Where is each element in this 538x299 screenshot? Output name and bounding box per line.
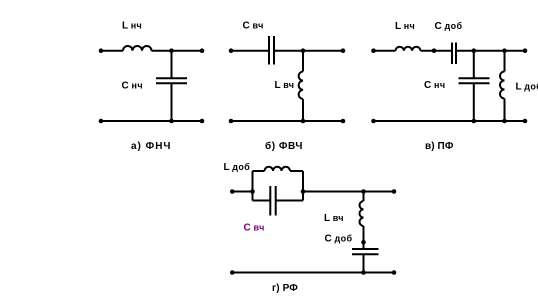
node: circuit d tank left bbox=[250, 189, 255, 194]
inductor L5 (L доб) circuit d tank coil bbox=[265, 167, 291, 171]
node: circuit a output top bbox=[200, 48, 205, 53]
node: circuit c junction 2 bottom bbox=[502, 119, 507, 124]
wire: circuit d bottom bbox=[232, 272, 394, 274]
capacitor C4 (C нч) circuit c shunt plates bbox=[459, 78, 490, 83]
node: circuit a junction top bbox=[169, 48, 174, 53]
inductor L2 (L вч) circuit b vertical coil bbox=[299, 72, 303, 100]
wire: circuit a capacitor upper lead bbox=[171, 51, 173, 78]
wire: circuit c shunt inductor lower lead bbox=[504, 99, 506, 122]
wire: circuit d tank top branch left bbox=[253, 170, 265, 172]
inductor L1 (L нч) circuit a bbox=[123, 46, 152, 51]
svg-text:а) ФНЧ: а) ФНЧ bbox=[131, 141, 171, 152]
node: circuit c junction 1 bottom bbox=[472, 119, 477, 124]
svg-text:C нч: C нч bbox=[122, 81, 143, 92]
wire: circuit c shunt capacitor lower lead bbox=[473, 83, 475, 121]
wire: circuit d tank left vertical bbox=[252, 171, 254, 201]
wire: circuit b top-right segment bbox=[274, 50, 343, 52]
svg-text:L нч: L нч bbox=[395, 21, 415, 32]
wire: circuit b inductor lower lead bbox=[302, 99, 304, 121]
wire: circuit b top-left segment bbox=[231, 50, 269, 52]
inductor L3 (L нч) circuit c bbox=[396, 47, 421, 51]
svg-text:г) РФ: г) РФ bbox=[272, 283, 298, 294]
wire: circuit a top-right segment bbox=[152, 50, 203, 52]
wire: circuit d tank bottom branch right bbox=[276, 200, 303, 202]
svg-text:C нч: C нч bbox=[424, 80, 445, 91]
wire: circuit c shunt inductor upper lead bbox=[504, 51, 506, 72]
node: circuit a output bottom bbox=[200, 119, 205, 124]
wire: circuit b bottom bbox=[231, 120, 343, 122]
svg-text:L доб: L доб bbox=[516, 82, 538, 93]
wire: circuit d between inductor and capacitor bbox=[363, 226, 365, 249]
inductor L6 (L вч) circuit d vertical coil bbox=[360, 201, 364, 226]
node: circuit d output top bbox=[392, 189, 397, 194]
node: circuit c junction 2 top bbox=[502, 48, 507, 53]
node: circuit a junction bottom bbox=[169, 119, 174, 124]
wire: circuit d top-right segment bbox=[303, 191, 394, 193]
svg-text:L вч: L вч bbox=[324, 213, 344, 224]
wire: circuit d tank top branch right bbox=[290, 170, 303, 172]
capacitor C3 (C доб) circuit c series plates bbox=[452, 43, 456, 65]
wire: circuit a bottom bbox=[101, 120, 202, 122]
node: circuit d tank right bbox=[301, 189, 306, 194]
node: circuit c junction 1 top bbox=[472, 48, 477, 53]
node: circuit b output top bbox=[341, 48, 346, 53]
svg-text:C доб: C доб bbox=[435, 21, 463, 32]
node: circuit b output bottom bbox=[341, 119, 346, 124]
node: circuit d input bottom bbox=[230, 270, 235, 275]
wire: circuit c bottom bbox=[374, 120, 526, 122]
node: circuit b junction top bbox=[301, 48, 306, 53]
node: circuit d junction bottom bbox=[361, 270, 366, 275]
capacitor C6 (C доб) circuit d shunt plates bbox=[352, 249, 379, 254]
node: circuit d junction top bbox=[361, 189, 366, 194]
node: circuit c input top bbox=[371, 48, 376, 53]
node: circuit d input top bbox=[230, 189, 235, 194]
capacitor C2 (C вч) circuit b plates bbox=[269, 36, 274, 65]
wire: circuit b inductor upper lead bbox=[302, 51, 304, 72]
svg-text:б) ФВЧ: б) ФВЧ bbox=[265, 140, 303, 152]
wire: circuit c top-left segment bbox=[374, 50, 396, 52]
node: circuit b input top bbox=[229, 48, 234, 53]
wire: circuit c shunt capacitor upper lead bbox=[473, 51, 475, 79]
capacitor C5 (C вч) circuit d tank plates bbox=[270, 186, 275, 216]
wire: circuit a capacitor lower lead bbox=[171, 83, 173, 121]
wire: circuit d tank right vertical bbox=[302, 171, 304, 201]
node: circuit c output top bbox=[523, 48, 528, 53]
wire: circuit d top-left segment bbox=[232, 191, 252, 193]
svg-text:в) ПФ: в) ПФ bbox=[425, 141, 454, 152]
node: circuit c input bottom bbox=[371, 119, 376, 124]
node: circuit b input bottom bbox=[229, 119, 234, 124]
svg-text:L нч: L нч bbox=[122, 21, 142, 32]
wire: circuit c between inductor and capacitor bbox=[421, 50, 453, 52]
wire: circuit d shunt capacitor lower lead bbox=[363, 254, 365, 272]
wire: circuit c top-right segment bbox=[456, 50, 525, 52]
svg-text:C доб: C доб bbox=[325, 233, 353, 244]
svg-text:C вч: C вч bbox=[244, 223, 265, 234]
node: circuit a input bottom bbox=[99, 119, 104, 124]
capacitor C1 (C нч) circuit a plates bbox=[156, 78, 187, 83]
inductor L4 (L доб) circuit c vertical coil bbox=[500, 72, 505, 99]
node: circuit d output bottom bbox=[392, 270, 397, 275]
wire: circuit d tank bottom branch left bbox=[253, 200, 271, 202]
svg-text:L вч: L вч bbox=[275, 80, 295, 91]
svg-text:L доб: L доб bbox=[224, 162, 251, 173]
node: circuit a input top bbox=[99, 48, 104, 53]
svg-text:C вч: C вч bbox=[243, 21, 264, 32]
node: circuit d between L and C bbox=[361, 240, 366, 245]
node: circuit c output bottom bbox=[523, 119, 528, 124]
node: circuit b junction bottom bbox=[301, 119, 306, 124]
wire: circuit a top-left segment bbox=[101, 50, 123, 52]
node: circuit c between L and C bbox=[432, 48, 437, 53]
wire: circuit d shunt inductor upper lead bbox=[363, 192, 365, 202]
